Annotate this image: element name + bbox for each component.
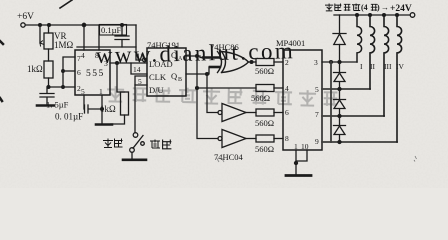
resistor R4 560ohm bbox=[256, 85, 274, 92]
left edge speck 1 bbox=[0, 41, 3, 44]
wire pin10 down bbox=[296, 150, 307, 161]
wire QB out bbox=[186, 67, 221, 74]
label zhengzhuan (forward) bbox=[103, 139, 123, 148]
node dot pin6 link bbox=[62, 70, 65, 73]
svg-text:+24V: +24V bbox=[390, 4, 412, 14]
diode D1 bbox=[333, 34, 346, 45]
svg-text:(4: (4 bbox=[361, 3, 368, 12]
wire 555 pin3 out bbox=[110, 62, 131, 64]
svg-text:560Ω: 560Ω bbox=[251, 93, 270, 103]
wire R1 bottom to pin2 row bbox=[48, 78, 50, 87]
node dot n3 left bbox=[330, 61, 333, 64]
xor gate U2 74HC86 bbox=[218, 52, 222, 73]
resistor R2 1kohm body bbox=[121, 92, 129, 115]
wire 555 pin1 down bbox=[101, 96, 103, 125]
node dot coil4 rail bbox=[396, 14, 399, 17]
svg-text:LOAD: LOAD bbox=[149, 59, 173, 69]
ground below C1 bbox=[37, 104, 54, 107]
svg-text:1MΩ: 1MΩ bbox=[54, 40, 74, 50]
svg-text:III: III bbox=[384, 62, 392, 71]
svg-text:A: A bbox=[178, 56, 183, 62]
node dot n7 bbox=[338, 115, 341, 118]
switch common contact bbox=[133, 133, 138, 138]
inverter U3a bubble bbox=[218, 111, 222, 115]
wire 555 pin5 down bbox=[83, 95, 85, 109]
diode D4 bbox=[334, 116, 346, 142]
wire row n9 pin9 to coil IV bbox=[322, 141, 397, 143]
inverter U3b triangle bbox=[222, 130, 246, 148]
capacitor C3 0.01uF bbox=[85, 105, 103, 113]
pin tab 14 box bbox=[131, 63, 147, 74]
wire row n7 pin7 to coil III bbox=[322, 115, 384, 117]
diode chain top wire bbox=[339, 15, 341, 34]
LOAD bubble pin11 bbox=[143, 58, 147, 62]
node dot n9 bbox=[338, 141, 341, 144]
speck marks bbox=[216, 157, 224, 162]
svg-text:1kΩ: 1kΩ bbox=[100, 104, 116, 114]
diode D3 bbox=[334, 89, 346, 116]
svg-text:1kΩ: 1kΩ bbox=[27, 64, 43, 74]
svg-text:D/U: D/U bbox=[149, 85, 164, 95]
svg-text:8: 8 bbox=[95, 51, 99, 60]
node dot coil1 rail bbox=[356, 14, 359, 17]
wire R2 bottom to ground node bbox=[111, 115, 125, 124]
inverter U3a triangle bbox=[222, 104, 246, 122]
wire pin1 down bbox=[295, 150, 297, 175]
svg-text:4: 4 bbox=[81, 51, 85, 60]
svg-text:B: B bbox=[178, 77, 182, 83]
svg-text:7: 7 bbox=[315, 110, 319, 119]
+24V terminal bbox=[410, 13, 415, 18]
svg-text:→: → bbox=[381, 3, 389, 12]
switch side contact bbox=[141, 142, 145, 146]
node dot coil3 rail bbox=[383, 14, 386, 17]
svg-text:Q: Q bbox=[171, 50, 177, 60]
svg-text:MP4001: MP4001 bbox=[276, 38, 305, 48]
svg-text:+6V: +6V bbox=[17, 12, 34, 22]
MP4001 IC box bbox=[283, 50, 322, 150]
svg-text:560Ω: 560Ω bbox=[255, 66, 274, 76]
switch lever bbox=[133, 136, 143, 149]
switch lower contact bbox=[130, 148, 135, 153]
wire r2 row bbox=[197, 87, 256, 89]
555 IC box bbox=[75, 50, 110, 95]
+6V rail wire bbox=[25, 24, 136, 26]
wire D1 to n3 bbox=[339, 45, 341, 63]
left edge speck 2 bbox=[0, 98, 2, 101]
ground under MP4001 bbox=[286, 174, 311, 177]
svg-text:5: 5 bbox=[138, 77, 142, 86]
long vertical n3-n9 bbox=[330, 62, 332, 142]
svg-text:2: 2 bbox=[285, 58, 289, 67]
ground under 555 bbox=[96, 123, 112, 126]
svg-text:0.1µF: 0.1µF bbox=[101, 25, 122, 35]
svg-text:1: 1 bbox=[294, 142, 298, 151]
node dot pin1/10 bbox=[295, 162, 298, 165]
wire r5 to pin6 bbox=[274, 112, 283, 114]
svg-text:555: 555 bbox=[86, 69, 105, 79]
wire inv1 out bbox=[246, 112, 256, 114]
wire r6 to pin8 bbox=[274, 138, 283, 140]
node dot n5 bbox=[338, 88, 341, 91]
node dot row4 tap bbox=[196, 87, 199, 90]
capacitor C2 0.1uF bbox=[115, 25, 129, 47]
resistor R1 1kohm body bbox=[44, 61, 53, 78]
svg-text:4: 4 bbox=[285, 84, 289, 93]
node dot QB branch inv1 bbox=[206, 73, 209, 76]
resistor R3 560ohm bbox=[256, 59, 274, 66]
wire 555 pin6 link bbox=[63, 70, 75, 72]
potentiometer VR body bbox=[44, 33, 53, 49]
capacitor C1 1.5uF bbox=[40, 87, 54, 105]
wire 555 pin4 to rail bbox=[83, 25, 85, 50]
wire r3 to pin2 bbox=[274, 61, 283, 63]
svg-text:0. 01µF: 0. 01µF bbox=[55, 112, 83, 122]
node dot pin1/C3 bbox=[101, 108, 104, 111]
label stepper motor (4 phase) bbox=[325, 4, 360, 11]
ground under switch bbox=[123, 159, 146, 162]
svg-text:6: 6 bbox=[285, 108, 289, 117]
+24V rail bbox=[334, 14, 410, 16]
node dot QA branch bbox=[196, 55, 199, 58]
svg-text:Q: Q bbox=[171, 71, 177, 81]
node dot 555 pin4 rail bbox=[82, 23, 85, 26]
label box 0.1uF bbox=[100, 25, 127, 36]
node dot coil2 rail bbox=[369, 14, 372, 17]
coil L3 winding III bbox=[384, 15, 389, 116]
svg-text:560Ω: 560Ω bbox=[255, 118, 274, 128]
wire D/U down to switch bbox=[134, 85, 136, 133]
pin tab 5 box bbox=[135, 76, 147, 85]
wire 555 pin7 U-link bbox=[63, 57, 75, 87]
svg-text:74HC191: 74HC191 bbox=[147, 40, 180, 50]
svg-text:9: 9 bbox=[315, 137, 319, 146]
coil L2 winding II bbox=[370, 15, 375, 89]
svg-text:CLK: CLK bbox=[149, 72, 167, 82]
speck bbox=[414, 156, 417, 162]
+6V terminal bbox=[21, 23, 25, 27]
inverter U3b bubble bbox=[218, 137, 222, 141]
wire: rail corner down to LOAD bbox=[136, 25, 143, 60]
resistor R5 560ohm bbox=[256, 109, 274, 116]
xor output wire bbox=[248, 61, 256, 63]
wire pin2 row bbox=[49, 86, 76, 88]
svg-text:1: 1 bbox=[99, 87, 103, 96]
svg-text:6: 6 bbox=[77, 68, 81, 77]
svg-text:11: 11 bbox=[137, 52, 144, 61]
wire QA out bbox=[186, 56, 221, 58]
node dot n3 diode bbox=[338, 61, 341, 64]
node dot pin3 branch bbox=[116, 62, 119, 65]
74HC191 IC box bbox=[147, 48, 186, 96]
wire down to R2 bbox=[117, 63, 125, 92]
node dot R1 bottom bbox=[47, 86, 50, 89]
stray diagonal mark top-left bbox=[60, 0, 72, 8]
svg-text:3: 3 bbox=[104, 59, 108, 68]
coil L1 winding I bbox=[357, 15, 362, 62]
node dot VR top on rail bbox=[48, 24, 51, 27]
coil L4 winding IV bbox=[397, 15, 402, 142]
node dot cap C2 rail bbox=[121, 24, 124, 27]
watermark gray hangzhou jiangrui bbox=[107, 86, 338, 106]
svg-text:560Ω: 560Ω bbox=[255, 144, 274, 154]
node dot pin2 link bbox=[62, 86, 65, 89]
potentiometer VR wiper wire + arrow bbox=[39, 25, 41, 43]
svg-text:3: 3 bbox=[314, 58, 318, 67]
wire row n5 pin5 to coil II bbox=[322, 88, 370, 90]
wire 555 pin8 up bbox=[98, 25, 100, 50]
wire top link row y47 bbox=[77, 46, 136, 48]
svg-text:5: 5 bbox=[81, 87, 85, 96]
diode D2 bbox=[334, 62, 346, 89]
wire inv2 out bbox=[246, 138, 256, 140]
svg-text:74HC86: 74HC86 bbox=[210, 42, 239, 52]
svg-text:1. 5µF: 1. 5µF bbox=[46, 100, 69, 110]
svg-text:14: 14 bbox=[133, 65, 141, 74]
svg-text:8: 8 bbox=[285, 134, 289, 143]
wire switch to ground bbox=[131, 152, 133, 159]
wire QA down to inverter2 bbox=[197, 56, 218, 139]
wire VR to R1 bbox=[48, 25, 50, 61]
label fanzhuan (reverse) bbox=[150, 140, 171, 150]
svg-text:II: II bbox=[370, 62, 375, 71]
wire row n3 pin3 to coil I bbox=[322, 61, 357, 63]
wire QB down to inverter1 bbox=[207, 74, 218, 113]
node dot VR wiper on rail bbox=[39, 24, 42, 27]
resistor R6 560ohm bbox=[256, 135, 274, 142]
svg-text:): ) bbox=[377, 3, 380, 12]
svg-text:10: 10 bbox=[301, 142, 309, 151]
svg-text:IV: IV bbox=[396, 62, 404, 71]
svg-text:5: 5 bbox=[315, 85, 319, 94]
wire r4 to pin4 bbox=[274, 87, 283, 89]
node dot xor out bbox=[250, 61, 253, 64]
